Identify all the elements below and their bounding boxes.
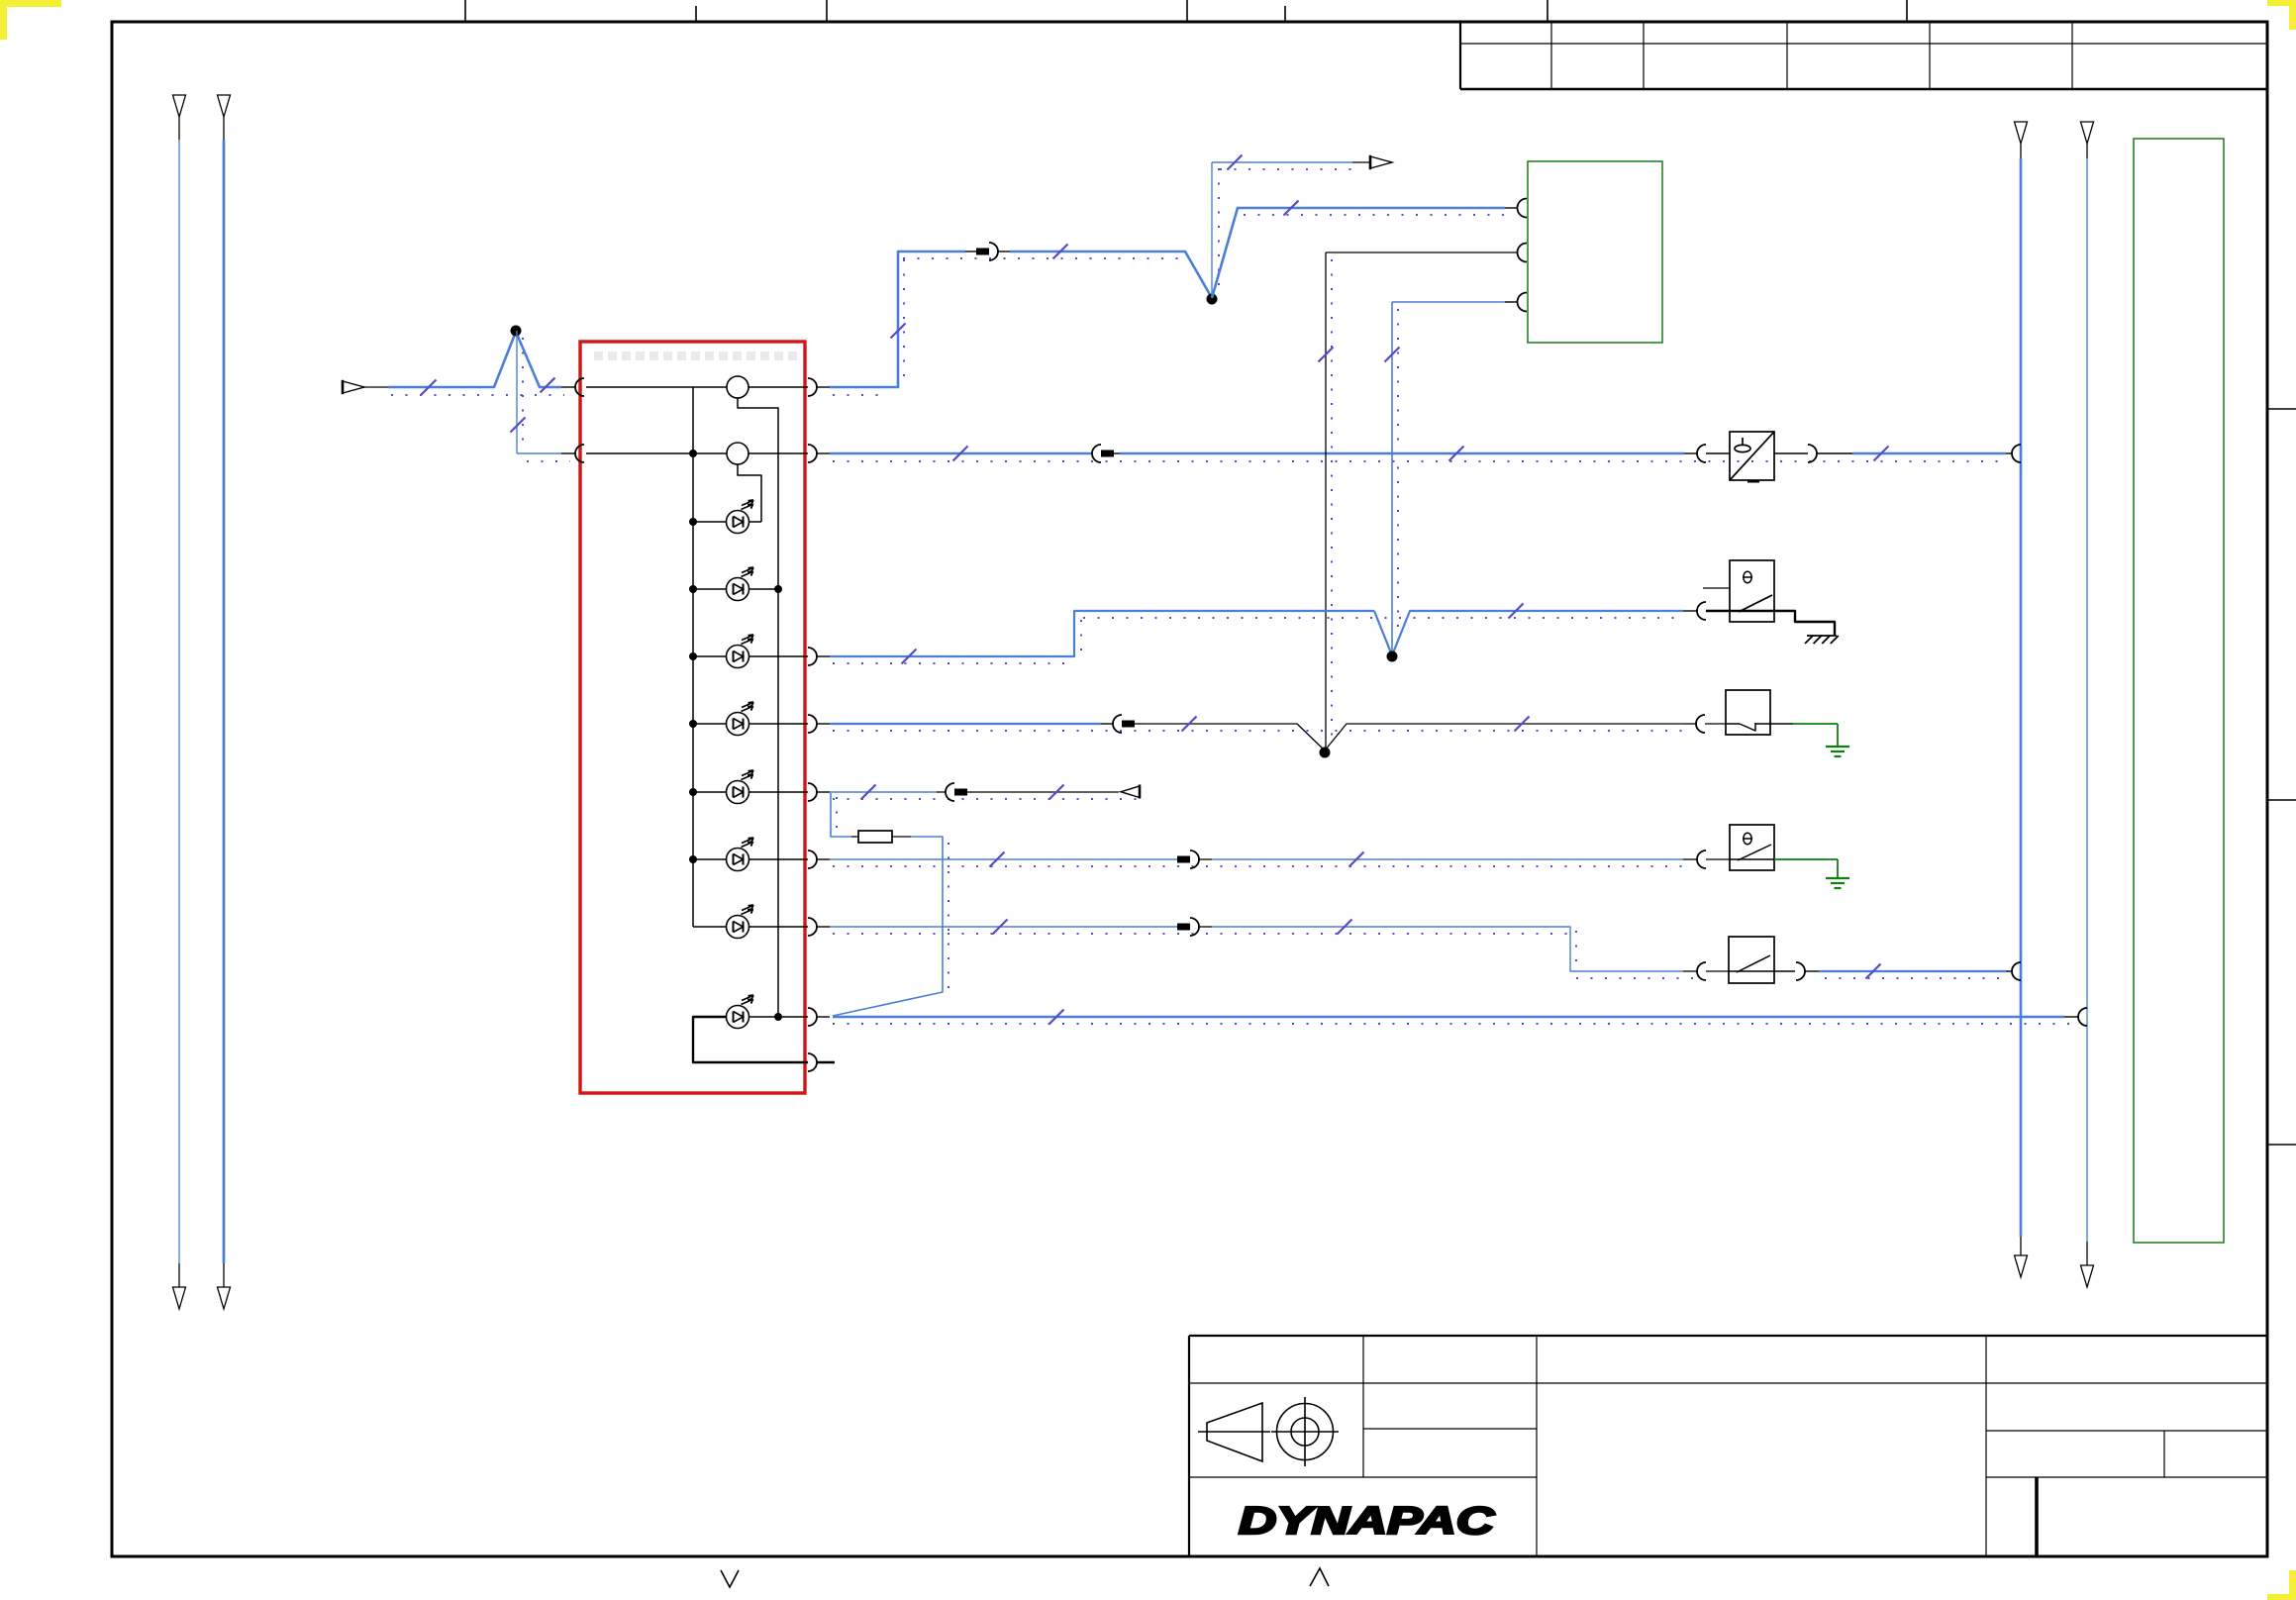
wire row2 to rail R1	[1852, 452, 2006, 455]
LED V8 return loop	[693, 1017, 808, 1062]
wire row7	[830, 926, 1177, 928]
wire branch to X1.2	[516, 331, 518, 453]
ECU pin 1	[1518, 199, 1528, 218]
junction J1	[1207, 294, 1218, 305]
S3 to earth ground	[1774, 858, 1838, 860]
temperature switch S1	[1730, 560, 1774, 622]
wire number mark	[1866, 964, 1881, 979]
pin exit	[808, 1008, 817, 1026]
svg-text:DYNAPAC: DYNAPAC	[1239, 1500, 1495, 1543]
wire number mark	[1228, 155, 1243, 170]
pin X1.1 (entry)	[575, 378, 584, 396]
A1 internal bus 1	[692, 387, 694, 927]
LED right lead	[749, 791, 808, 793]
wire number mark	[861, 785, 876, 800]
A1 internal bus 2	[738, 398, 778, 1017]
inline connector row6	[1177, 856, 1190, 863]
ECU module (green box)	[1528, 161, 1662, 343]
LED V2	[727, 567, 754, 601]
wire number mark	[1049, 1010, 1064, 1025]
sheet-reference arrow in	[343, 381, 364, 393]
inline connector row5	[946, 783, 954, 801]
lamp H2 drop wire	[738, 464, 761, 522]
wire row4	[830, 723, 1101, 725]
wire number mark	[1874, 447, 1889, 461]
lamp H1	[727, 376, 749, 398]
wire number mark	[1284, 201, 1299, 216]
earth ground (green)	[1826, 878, 1849, 888]
wire S4 to rail R1	[1819, 970, 2006, 972]
wire number mark	[891, 324, 906, 339]
wire row1 to junction	[1010, 251, 1212, 298]
wire number mark	[541, 378, 555, 393]
LED V4	[727, 702, 754, 736]
LED V3	[727, 635, 754, 668]
resistor R1	[858, 831, 892, 843]
wire row2	[830, 452, 1092, 455]
wire row3	[830, 611, 1374, 656]
sheet-reference arrow out	[1370, 156, 1392, 168]
inline connector row2	[1092, 445, 1101, 462]
junction on bus1	[689, 720, 697, 728]
LED right lead	[749, 926, 808, 928]
LED right lead	[749, 858, 808, 860]
wire feed to X1.1	[363, 386, 388, 388]
pressure switch S2	[1726, 690, 1770, 735]
LED V5	[727, 770, 754, 804]
LED V6	[727, 838, 754, 871]
wire number mark	[1049, 785, 1064, 800]
supply rail R2 (right thin)	[2081, 122, 2094, 144]
LED right lead	[749, 655, 808, 657]
junction on bus1	[689, 518, 697, 526]
pin exit (return)	[808, 1053, 817, 1071]
S2 to earth ground	[1770, 723, 1793, 725]
pin exit	[808, 378, 817, 396]
wire number mark	[422, 380, 437, 395]
junction peak	[511, 326, 522, 337]
branch J1 to sheet arrow	[1211, 162, 1213, 298]
LED V7	[727, 905, 754, 939]
wire number mark	[1385, 348, 1400, 362]
S4 out connector	[1774, 970, 1795, 972]
supply rail L2 (left thick)	[218, 95, 231, 117]
inline connector row1	[976, 249, 989, 255]
wire row6	[830, 858, 1177, 860]
wire number mark	[1182, 717, 1197, 732]
supply rail R1 (right thick)	[2015, 122, 2028, 144]
wire row6 cont	[1212, 858, 1683, 860]
wire row2 cont	[1120, 452, 1684, 455]
S1 to chassis ground	[1774, 611, 1835, 636]
pin exit	[808, 648, 817, 665]
wire number mark	[1509, 604, 1524, 619]
wire number mark	[1319, 348, 1334, 362]
pin exit	[808, 850, 817, 868]
junction on bus1	[689, 652, 697, 660]
junction J2 dip	[1374, 611, 1683, 655]
junction J2	[1387, 651, 1398, 662]
temperature switch S3	[1730, 825, 1774, 870]
pin exit	[808, 715, 817, 733]
wire number mark	[1349, 852, 1364, 867]
wire number mark	[1338, 920, 1352, 935]
wire number mark	[953, 447, 968, 461]
wire number mark	[990, 852, 1005, 867]
wire row5 cont	[975, 791, 1119, 793]
sheet-reference arrow row5	[1121, 786, 1140, 798]
junction on bus1	[689, 788, 697, 796]
LED V2 right lead	[749, 588, 778, 590]
LED right lead	[749, 723, 808, 725]
wire ECU pin2 branch	[1326, 251, 1518, 253]
chassis ground	[1805, 636, 1839, 644]
connector at S3	[1683, 858, 1697, 860]
junction J3	[1320, 748, 1331, 758]
wire number mark	[1515, 717, 1530, 732]
ECU pin 3	[1518, 293, 1528, 312]
switch S4	[1729, 937, 1774, 983]
harness duct (green box)	[2134, 139, 2224, 1243]
branch to resistor R1	[831, 793, 851, 837]
connector at S2	[1683, 723, 1697, 725]
ECU pin 2	[1518, 244, 1528, 262]
junction on bus1	[689, 450, 697, 457]
wire ECU pin3 branch	[1505, 301, 1518, 303]
LED V1	[727, 500, 754, 534]
inline connector row4	[1113, 715, 1122, 733]
pin exit	[808, 918, 817, 936]
junction on bus1	[689, 585, 697, 593]
junction on bus1	[689, 855, 697, 863]
connector at level sensor	[1684, 452, 1697, 454]
pin exit	[808, 445, 817, 462]
wire J3 to S2	[1325, 724, 1683, 750]
wire row4 cont	[1144, 724, 1325, 750]
wire row8 (to rail R2)	[833, 1016, 2064, 1019]
LED V1 right lead	[749, 521, 761, 523]
pin X1.2 (entry)	[575, 445, 584, 462]
level sensor out connector	[1774, 452, 1808, 454]
LED V8	[727, 995, 754, 1029]
wire row1 riser	[830, 251, 965, 387]
level sensor B1	[1730, 432, 1774, 480]
pin exit	[808, 783, 817, 801]
wire row5	[830, 791, 937, 793]
supply rail L1 (left thin)	[173, 95, 186, 117]
resistor R1 out	[892, 836, 911, 838]
control unit A1 (red outline)	[580, 342, 805, 1093]
wire number mark	[1449, 447, 1464, 461]
wire number mark	[511, 418, 526, 433]
inline connector row7	[1177, 924, 1190, 931]
wire row7 cont	[1212, 927, 1683, 971]
wire J1 to ECU pin1	[1212, 208, 1505, 298]
lamp H2	[727, 443, 749, 464]
wire number mark	[902, 650, 917, 664]
wire number mark	[993, 920, 1008, 935]
connector at S1	[1683, 610, 1697, 612]
earth ground (green)	[1826, 747, 1849, 756]
wire number mark	[1053, 245, 1068, 259]
connector at S4	[1683, 970, 1697, 972]
